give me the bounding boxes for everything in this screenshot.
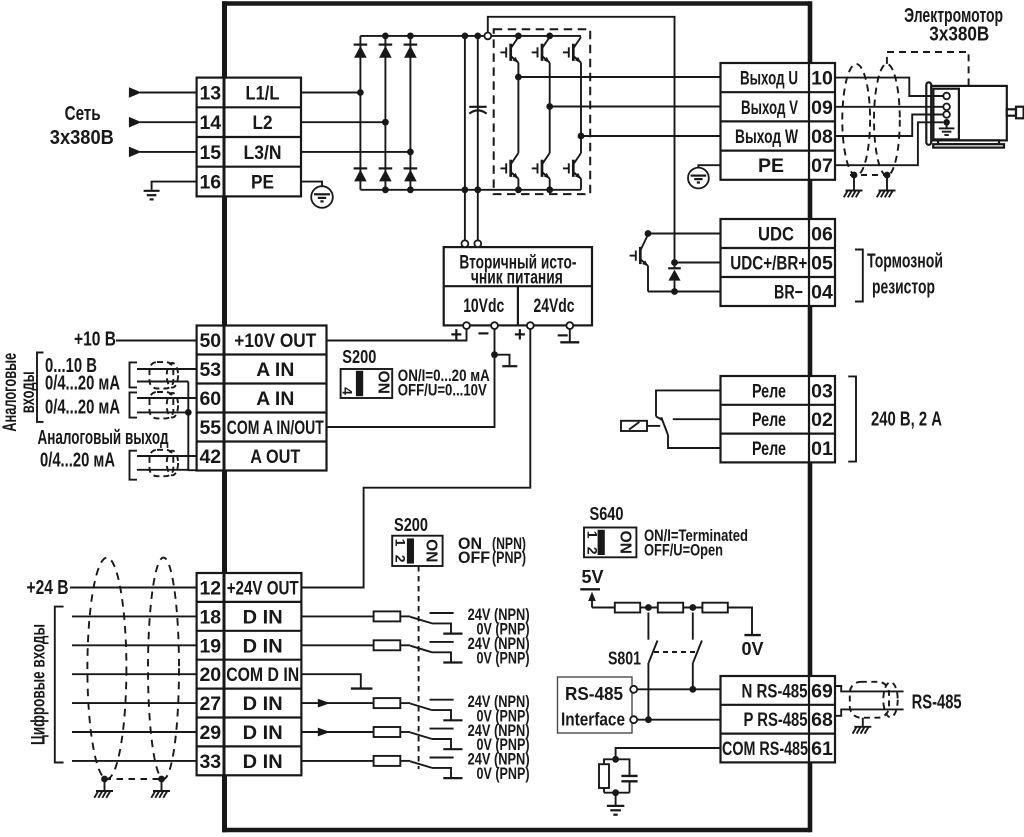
inverter bottom IGBT leg 2: [532, 153, 550, 190]
S801 dashed link: [654, 651, 697, 653]
svg-text:Реле: Реле: [752, 438, 786, 460]
motor earth symbol in box: [939, 122, 955, 135]
RS-485 shield earth: [862, 718, 864, 727]
svg-text:60: 60: [199, 388, 221, 410]
svg-text:RS-485: RS-485: [565, 683, 623, 704]
svg-text:P RS-485: P RS-485: [744, 709, 808, 731]
svg-text:07: 07: [811, 155, 833, 177]
svg-text:COM A IN/OUT: COM A IN/OUT: [227, 417, 324, 439]
D IN switch unit 4: [301, 727, 462, 749]
digital inputs bracket: [55, 607, 64, 763]
svg-text:OFF: OFF: [458, 548, 490, 567]
svg-text:0/4...20 мА: 0/4...20 мА: [40, 450, 115, 472]
label Analog output: [38, 427, 169, 472]
PSU polarity labels: [451, 323, 569, 347]
svg-text:S200: S200: [342, 346, 376, 367]
24Vdc minus ground: [560, 329, 579, 342]
terminal block RS-485 69 68 61: [721, 676, 836, 762]
bus junction dots: [357, 33, 553, 194]
svg-text:BR−: BR−: [774, 282, 803, 304]
relay coil: [621, 417, 661, 431]
label +24 V and wire: [27, 577, 197, 599]
motor terminal circles: [943, 93, 950, 126]
DIP switch S640: [584, 503, 636, 557]
terminal block UDC 06 05 04: [721, 219, 836, 306]
svg-text:10: 10: [811, 68, 833, 90]
motor cable shield ellipses: [842, 64, 900, 176]
S200 analog notes: [398, 366, 490, 400]
digital shield drain dots and dashes: [101, 776, 165, 791]
DC link rails: [465, 36, 478, 241]
interface terminals: [630, 686, 637, 723]
terminal block outputs 10-07: [721, 63, 836, 180]
inverter top IGBT leg 1: [500, 37, 518, 77]
dashed PE link cable to motor: [887, 52, 969, 86]
label Electromotor 3x380V: [904, 5, 1003, 46]
D IN switch unit 3: [301, 698, 462, 720]
label network Set 3x380V: [50, 103, 114, 149]
N/P wires: [637, 686, 720, 723]
svg-text:08: 08: [811, 126, 833, 148]
svg-text:33: 33: [199, 751, 221, 773]
svg-text:06: 06: [811, 224, 833, 246]
svg-text:PE: PE: [251, 172, 274, 194]
svg-text:PE: PE: [758, 155, 784, 177]
D IN switch unit 5: [301, 756, 462, 778]
svg-text:резистор: резистор: [872, 277, 935, 299]
PE input ground symbol: [144, 182, 197, 200]
PSU top terminals: [462, 240, 482, 247]
svg-text:Аналоговый выход: Аналоговый выход: [38, 427, 169, 449]
svg-text:L1/L: L1/L: [246, 83, 280, 105]
digital cable shield ellipses: [87, 558, 179, 779]
svg-text:Тормозной: Тормозной: [867, 251, 943, 273]
svg-text:Цифровые входы: Цифровые входы: [28, 624, 50, 745]
svg-text:5V: 5V: [582, 567, 604, 587]
S640 notes: [644, 526, 748, 560]
svg-text:+: +: [451, 324, 463, 346]
svg-text:27: 27: [199, 693, 221, 715]
pull resistor R2: [658, 603, 683, 613]
svg-text:240 В, 2 А: 240 В, 2 А: [871, 409, 942, 431]
svg-text:2: 2: [392, 555, 408, 563]
mains input arrows and wires: [129, 87, 197, 157]
svg-text:3х380В: 3х380В: [50, 127, 114, 149]
svg-text:Сеть: Сеть: [65, 103, 101, 125]
leg 2 mid wire: [549, 107, 551, 154]
DC+ node and wire to UDC+/BR+: [484, 17, 674, 263]
svg-text:Выход U: Выход U: [740, 68, 798, 90]
COM RS-485 wire: [612, 748, 720, 763]
svg-text:OFF/U=0...10V: OFF/U=0...10V: [398, 381, 488, 400]
svg-text:0V (PNP): 0V (PNP): [477, 765, 530, 783]
svg-text:18: 18: [199, 606, 221, 628]
terminal block digital 12 18 19 20 27 29 33: [197, 573, 302, 775]
svg-text:чник питания: чник питания: [471, 267, 563, 289]
svg-text:29: 29: [199, 722, 221, 744]
svg-text:09: 09: [811, 97, 833, 119]
rectifier diode column 1: [354, 36, 368, 190]
leg 1 mid wire: [517, 77, 519, 153]
svg-text:ON: ON: [617, 531, 634, 554]
chopper junction dots: [645, 230, 678, 295]
VFD enclosure border: [222, 1, 810, 832]
svg-text:42: 42: [199, 446, 221, 468]
PSU bottom terminals: [463, 322, 573, 329]
COM D IN ground stub: [301, 674, 372, 688]
relay changeover contact: [656, 390, 721, 448]
svg-text:L3/N: L3/N: [244, 142, 282, 164]
inverter bottom IGBT leg 1: [500, 153, 518, 190]
wire to 0V: [728, 608, 761, 636]
label RS-485: [912, 692, 962, 714]
pull resistor R1: [615, 603, 640, 613]
small brackets at shields: [130, 362, 138, 479]
wire: [683, 607, 702, 609]
analog inputs big bracket: [37, 353, 44, 422]
terminal block analog 50 53 60 55 42: [197, 326, 327, 471]
inverter bottom IGBT leg 3: [563, 153, 581, 190]
svg-text:D IN: D IN: [243, 606, 283, 628]
svg-text:−: −: [557, 325, 569, 347]
svg-text:20: 20: [199, 664, 221, 686]
digital shield earth 2: [151, 791, 170, 798]
RC bottom node and ground: [607, 793, 624, 815]
D IN switch unit 1: [301, 611, 462, 633]
rectifier DC buses: [360, 36, 581, 190]
svg-text:Реле: Реле: [752, 409, 786, 431]
svg-text:UDC: UDC: [758, 224, 794, 246]
svg-text:S640: S640: [590, 503, 624, 524]
motor cable shield earths: [850, 172, 891, 191]
svg-text:1: 1: [392, 539, 408, 547]
svg-text:68: 68: [811, 709, 833, 731]
svg-text:03: 03: [811, 380, 833, 402]
wires terminals to rectifier: [301, 93, 410, 152]
cable shield symbol 42: [150, 450, 179, 476]
svg-text:12: 12: [199, 578, 221, 600]
svg-text:COM D IN: COM D IN: [226, 664, 299, 686]
brake resistor bracket and label: [855, 250, 943, 302]
COM wire to terminal 55: [327, 329, 495, 427]
svg-text:Реле: Реле: [752, 380, 786, 402]
analog output wires 42: [137, 456, 197, 470]
svg-text:A IN: A IN: [256, 359, 294, 381]
svg-text:L2: L2: [253, 112, 273, 134]
svg-text:+10 В: +10 В: [74, 329, 116, 351]
svg-text:3х380В: 3х380В: [929, 24, 989, 46]
svg-text:15: 15: [199, 142, 221, 164]
svg-text:N RS-485: N RS-485: [742, 680, 808, 702]
termination RC network: [599, 759, 638, 792]
rectifier diode column 3: [404, 36, 418, 190]
svg-text:D IN: D IN: [243, 751, 283, 773]
DIP switch S200 (digital): [392, 514, 442, 566]
svg-text:Выход W: Выход W: [735, 126, 798, 148]
label +10 V and wire: [74, 329, 197, 351]
signal ground stub at COM: [495, 355, 518, 367]
svg-text:14: 14: [199, 112, 221, 134]
RS-485 cable wires: [835, 686, 904, 716]
wire: [640, 607, 658, 609]
output node leg 2: [546, 103, 553, 110]
svg-text:S200: S200: [394, 514, 428, 535]
analog input wires 53: [137, 369, 197, 382]
svg-text:61: 61: [811, 738, 833, 760]
svg-text:OFF/U=Open: OFF/U=Open: [644, 541, 723, 560]
output node leg 3: [578, 133, 585, 140]
svg-text:24Vdc: 24Vdc: [534, 295, 575, 317]
+24V wire to terminal 12: [301, 329, 530, 588]
terminal block 13-16: [197, 78, 301, 197]
svg-text:53: 53: [199, 359, 221, 381]
brake chopper IGBT: [630, 235, 649, 292]
RS-485 cable shield: [850, 682, 898, 718]
svg-text:A OUT: A OUT: [250, 446, 300, 468]
S801 switch b: [693, 613, 702, 690]
svg-text:A IN: A IN: [256, 388, 294, 410]
svg-text:D IN: D IN: [243, 722, 283, 744]
svg-text:01: 01: [811, 438, 833, 460]
svg-text:02: 02: [811, 409, 833, 431]
brake diode: [668, 263, 681, 292]
label S801: [608, 648, 641, 669]
svg-text:D IN: D IN: [243, 693, 283, 715]
DIP switch S200 (analog): [339, 346, 392, 398]
svg-text:04: 04: [811, 282, 833, 304]
svg-text:05: 05: [811, 253, 833, 275]
inverter top IGBT leg 2: [532, 37, 550, 107]
motor wires U V W PE: [835, 78, 943, 166]
5V supply symbol: [580, 567, 615, 608]
svg-text:4: 4: [339, 387, 355, 395]
svg-text:ON: ON: [375, 371, 392, 394]
PE circled earth output side: [688, 165, 721, 188]
svg-text:+24 В: +24 В: [27, 577, 69, 599]
svg-text:13: 13: [199, 83, 221, 105]
inverter top IGBT leg 3: [563, 37, 581, 136]
DC link capacitor: [469, 107, 486, 114]
svg-text:55: 55: [199, 417, 221, 439]
rotated label Analog inputs: [0, 353, 39, 432]
secondary power supply box: [444, 247, 592, 325]
RS-485 Interface box: [558, 677, 633, 733]
digital shield earth 1: [94, 791, 113, 798]
svg-text:0/4...20 мА: 0/4...20 мА: [45, 373, 120, 395]
pull resistor R3: [702, 603, 727, 613]
svg-text:19: 19: [199, 635, 221, 657]
PE terminal circled earth left: [301, 182, 333, 208]
shield common bus: [185, 382, 197, 471]
svg-text:входы: входы: [17, 371, 39, 413]
svg-text:S801: S801: [608, 648, 641, 669]
analog input wires 60: [137, 398, 197, 412]
label 0V: [742, 639, 764, 659]
svg-text:16: 16: [199, 172, 221, 194]
+10V wire to terminal 50: [327, 329, 467, 341]
UDC wire and brake chopper: [648, 234, 721, 292]
svg-text:RS-485: RS-485: [912, 692, 962, 714]
cable shield symbol 53: [150, 362, 179, 388]
svg-text:+24V OUT: +24V OUT: [227, 578, 299, 600]
svg-text:Выход V: Выход V: [741, 97, 798, 119]
S801 switch a: [648, 613, 657, 720]
svg-text:0/4...20 мА: 0/4...20 мА: [45, 397, 120, 419]
svg-text:COM RS-485: COM RS-485: [722, 738, 808, 760]
svg-text:50: 50: [199, 330, 221, 352]
dashed selector line: [418, 566, 420, 769]
terminal block relay 03 02 01: [721, 376, 836, 462]
motor body: [926, 82, 1023, 147]
svg-text:+10V OUT: +10V OUT: [234, 330, 316, 352]
svg-text:ON: ON: [423, 539, 440, 562]
rotated label Digital inputs: [28, 624, 50, 745]
digital input wires left: [72, 616, 197, 761]
svg-text:69: 69: [811, 680, 833, 702]
svg-text:+: +: [514, 324, 526, 346]
D IN switch unit 2: [301, 640, 462, 662]
leg 3 mid wire: [580, 136, 582, 153]
node dots on 5V rail: [645, 604, 696, 611]
output wires U V W: [518, 77, 720, 136]
svg-text:UDC+/BR+: UDC+/BR+: [730, 253, 807, 275]
svg-text:(PNP): (PNP): [492, 548, 526, 567]
S200 digital notes: [458, 534, 526, 567]
svg-text:10Vdc: 10Vdc: [463, 295, 504, 317]
svg-text:0V (PNP): 0V (PNP): [477, 650, 530, 668]
cable shield symbol 60: [150, 392, 179, 418]
inverter IGBT dashed box: [494, 29, 591, 194]
rectifier diode column 2: [379, 36, 393, 190]
svg-text:Interface: Interface: [561, 709, 625, 730]
svg-text:0V: 0V: [742, 639, 764, 659]
output node leg 1: [515, 74, 522, 81]
svg-text:−: −: [478, 323, 490, 345]
svg-text:D IN: D IN: [243, 635, 283, 657]
range labels: [45, 355, 120, 419]
240V 2A bracket and label: [848, 376, 942, 461]
